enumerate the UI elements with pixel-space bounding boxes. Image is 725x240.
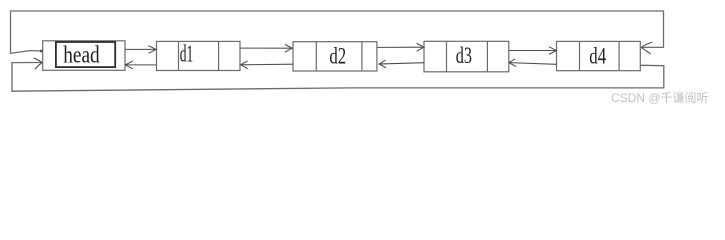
svg-text:d1: d1 (180, 42, 194, 68)
svg-text:d3: d3 (456, 43, 472, 69)
svg-text:d2: d2 (329, 44, 346, 70)
svg-text:head: head (63, 42, 99, 69)
svg-text:d4: d4 (589, 44, 606, 70)
